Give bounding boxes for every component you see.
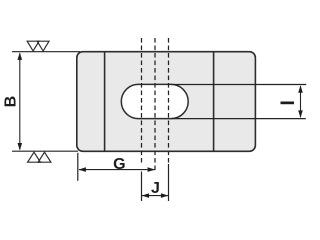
surface finish symbol bottom: [28, 152, 51, 162]
svg-text:G: G: [113, 156, 125, 173]
dimension line J: [142, 193, 169, 198]
extension line B bottom: [12, 150, 78, 152]
plate body: [77, 52, 256, 152]
center line right: [168, 38, 170, 163]
extension line J left: [141, 172, 143, 202]
extension line J right: [168, 164, 170, 201]
slot hole: [121, 84, 188, 118]
center line left: [141, 38, 143, 163]
extension line I top: [171, 84, 306, 86]
plate step line left: [104, 53, 106, 151]
center line middle: [154, 38, 156, 171]
dimension line B: [18, 52, 23, 150]
svg-text:I: I: [278, 100, 299, 105]
svg-text:B: B: [3, 96, 20, 108]
dimension line I: [298, 85, 303, 118]
dimension line G: [78, 167, 155, 172]
extension line G left: [77, 153, 79, 181]
extension line I bottom: [171, 118, 306, 120]
svg-text:J: J: [151, 180, 160, 197]
extension line B top: [12, 51, 80, 53]
plate step line right: [213, 53, 215, 151]
surface finish symbol top: [27, 41, 49, 51]
